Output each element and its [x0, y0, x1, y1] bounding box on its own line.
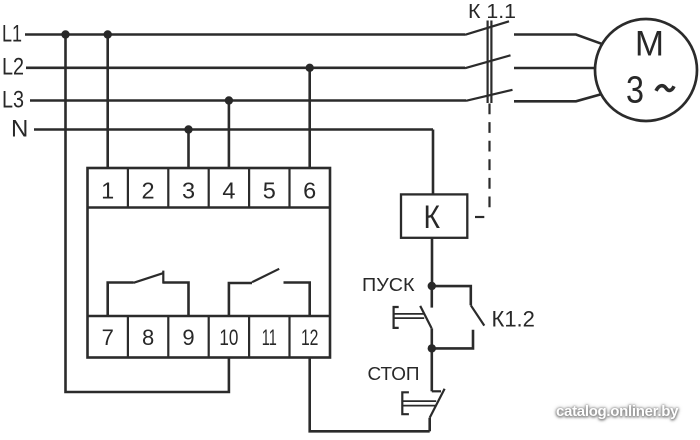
linkage dash to coil	[475, 216, 484, 218]
wire L2 to terminal 6	[308, 68, 311, 168]
wire N bus	[34, 128, 433, 131]
wire contact to terminal 9	[163, 283, 188, 317]
wire N to coil K	[432, 130, 435, 195]
wire K coil to start node	[431, 238, 434, 286]
K1.1 contact bar double line	[488, 21, 492, 104]
wire phase 3 to motor	[514, 94, 602, 101]
wire left branch L1 to terminal 10	[66, 35, 229, 393]
wire phase 1 to motor	[514, 35, 603, 45]
wire L1 to terminal 1	[106, 35, 109, 169]
watermark catalog.onliner.by	[556, 403, 678, 420]
svg-text:10: 10	[219, 325, 238, 350]
wire L3 to terminal 4	[228, 101, 231, 169]
svg-text:ПУСК: ПУСК	[362, 274, 415, 295]
terminal labels 1-6	[101, 178, 316, 204]
node N junction dot	[184, 125, 192, 133]
svg-text:2: 2	[142, 178, 155, 204]
relay U1 outer box	[88, 168, 331, 358]
svg-text:К1.2: К1.2	[492, 306, 535, 331]
wire phase 2 to motor	[514, 67, 596, 70]
svg-text:3: 3	[182, 178, 195, 204]
node L1 left junction dot	[61, 30, 69, 38]
ПУСК bottom lead	[430, 328, 433, 348]
node start junction dot	[428, 282, 436, 290]
svg-text:СТОП: СТОП	[368, 363, 420, 384]
terminal row 7-12 separators	[128, 316, 290, 358]
svg-text:4: 4	[222, 178, 235, 204]
СТОП blade	[430, 389, 445, 418]
relay contact 7-9 fixed tick	[162, 271, 164, 284]
svg-text:6: 6	[303, 178, 316, 204]
terminal labels 7-12	[102, 325, 319, 350]
contactor K1.1 blade phase 2	[465, 55, 511, 68]
wire L2 bus	[26, 67, 465, 70]
СТОП fixed tick	[432, 390, 441, 392]
contactor K1.1 blade phase 3	[466, 90, 513, 101]
ПУСК plunger double line	[394, 314, 424, 318]
svg-text:3: 3	[626, 70, 644, 112]
svg-text:L2: L2	[2, 54, 24, 81]
terminal row 7-12 top line	[88, 315, 331, 318]
node L2 junction dot	[306, 64, 314, 72]
svg-text:8: 8	[142, 325, 154, 350]
STOP button СТОП top lead	[430, 348, 433, 391]
svg-text:7: 7	[102, 325, 114, 350]
relay contact 10-12 blade	[252, 269, 279, 282]
svg-text:L1: L1	[2, 20, 22, 47]
СТОП plunger double line	[403, 401, 436, 406]
СТОП bottom lead	[428, 418, 431, 432]
svg-text:К 1.1: К 1.1	[468, 0, 516, 23]
contactor coil K box	[401, 194, 467, 237]
node L3 junction dot	[225, 96, 233, 104]
K1.2 bottom lead	[432, 330, 473, 349]
svg-text:12: 12	[301, 325, 319, 350]
svg-text:5: 5	[263, 178, 276, 204]
K1.2 blade	[471, 305, 485, 325]
motor label tilde	[656, 86, 674, 91]
START button ПУСК top lead	[430, 286, 433, 308]
relay contact 7-9 blade	[134, 273, 164, 283]
ПУСК blade	[420, 306, 431, 328]
svg-text:11: 11	[262, 325, 277, 350]
terminal row 1-6 separators	[128, 168, 290, 208]
svg-text:M: M	[635, 25, 664, 64]
wire contact to terminal 12	[284, 283, 310, 317]
wire L3 bus	[30, 99, 466, 102]
node L1 terminal-1 junction dot	[104, 30, 112, 38]
wire N to terminal 3	[187, 130, 190, 169]
terminal row 1-6 bottom line	[88, 206, 331, 209]
K1.1 mechanical linkage dashed	[488, 104, 490, 209]
relay contact 7-9 left lead	[108, 283, 134, 317]
svg-text:N: N	[11, 115, 28, 142]
wire terminal 12 to stop button	[310, 358, 430, 432]
svg-text:К: К	[424, 199, 441, 235]
contactor K1.1 blade phase 1	[465, 21, 509, 35]
aux contact K1.2 top lead	[432, 286, 471, 305]
svg-text:9: 9	[182, 325, 194, 350]
node stop junction dot	[428, 344, 436, 352]
СТОП actuator cap	[402, 392, 409, 414]
svg-text:L3: L3	[2, 86, 24, 113]
ПУСК actuator cap	[394, 307, 399, 328]
relay contact 10-12 left lead	[229, 283, 252, 316]
svg-text:1: 1	[101, 178, 114, 204]
wire L1 bus	[25, 33, 465, 36]
motor M1 circle	[595, 19, 697, 121]
